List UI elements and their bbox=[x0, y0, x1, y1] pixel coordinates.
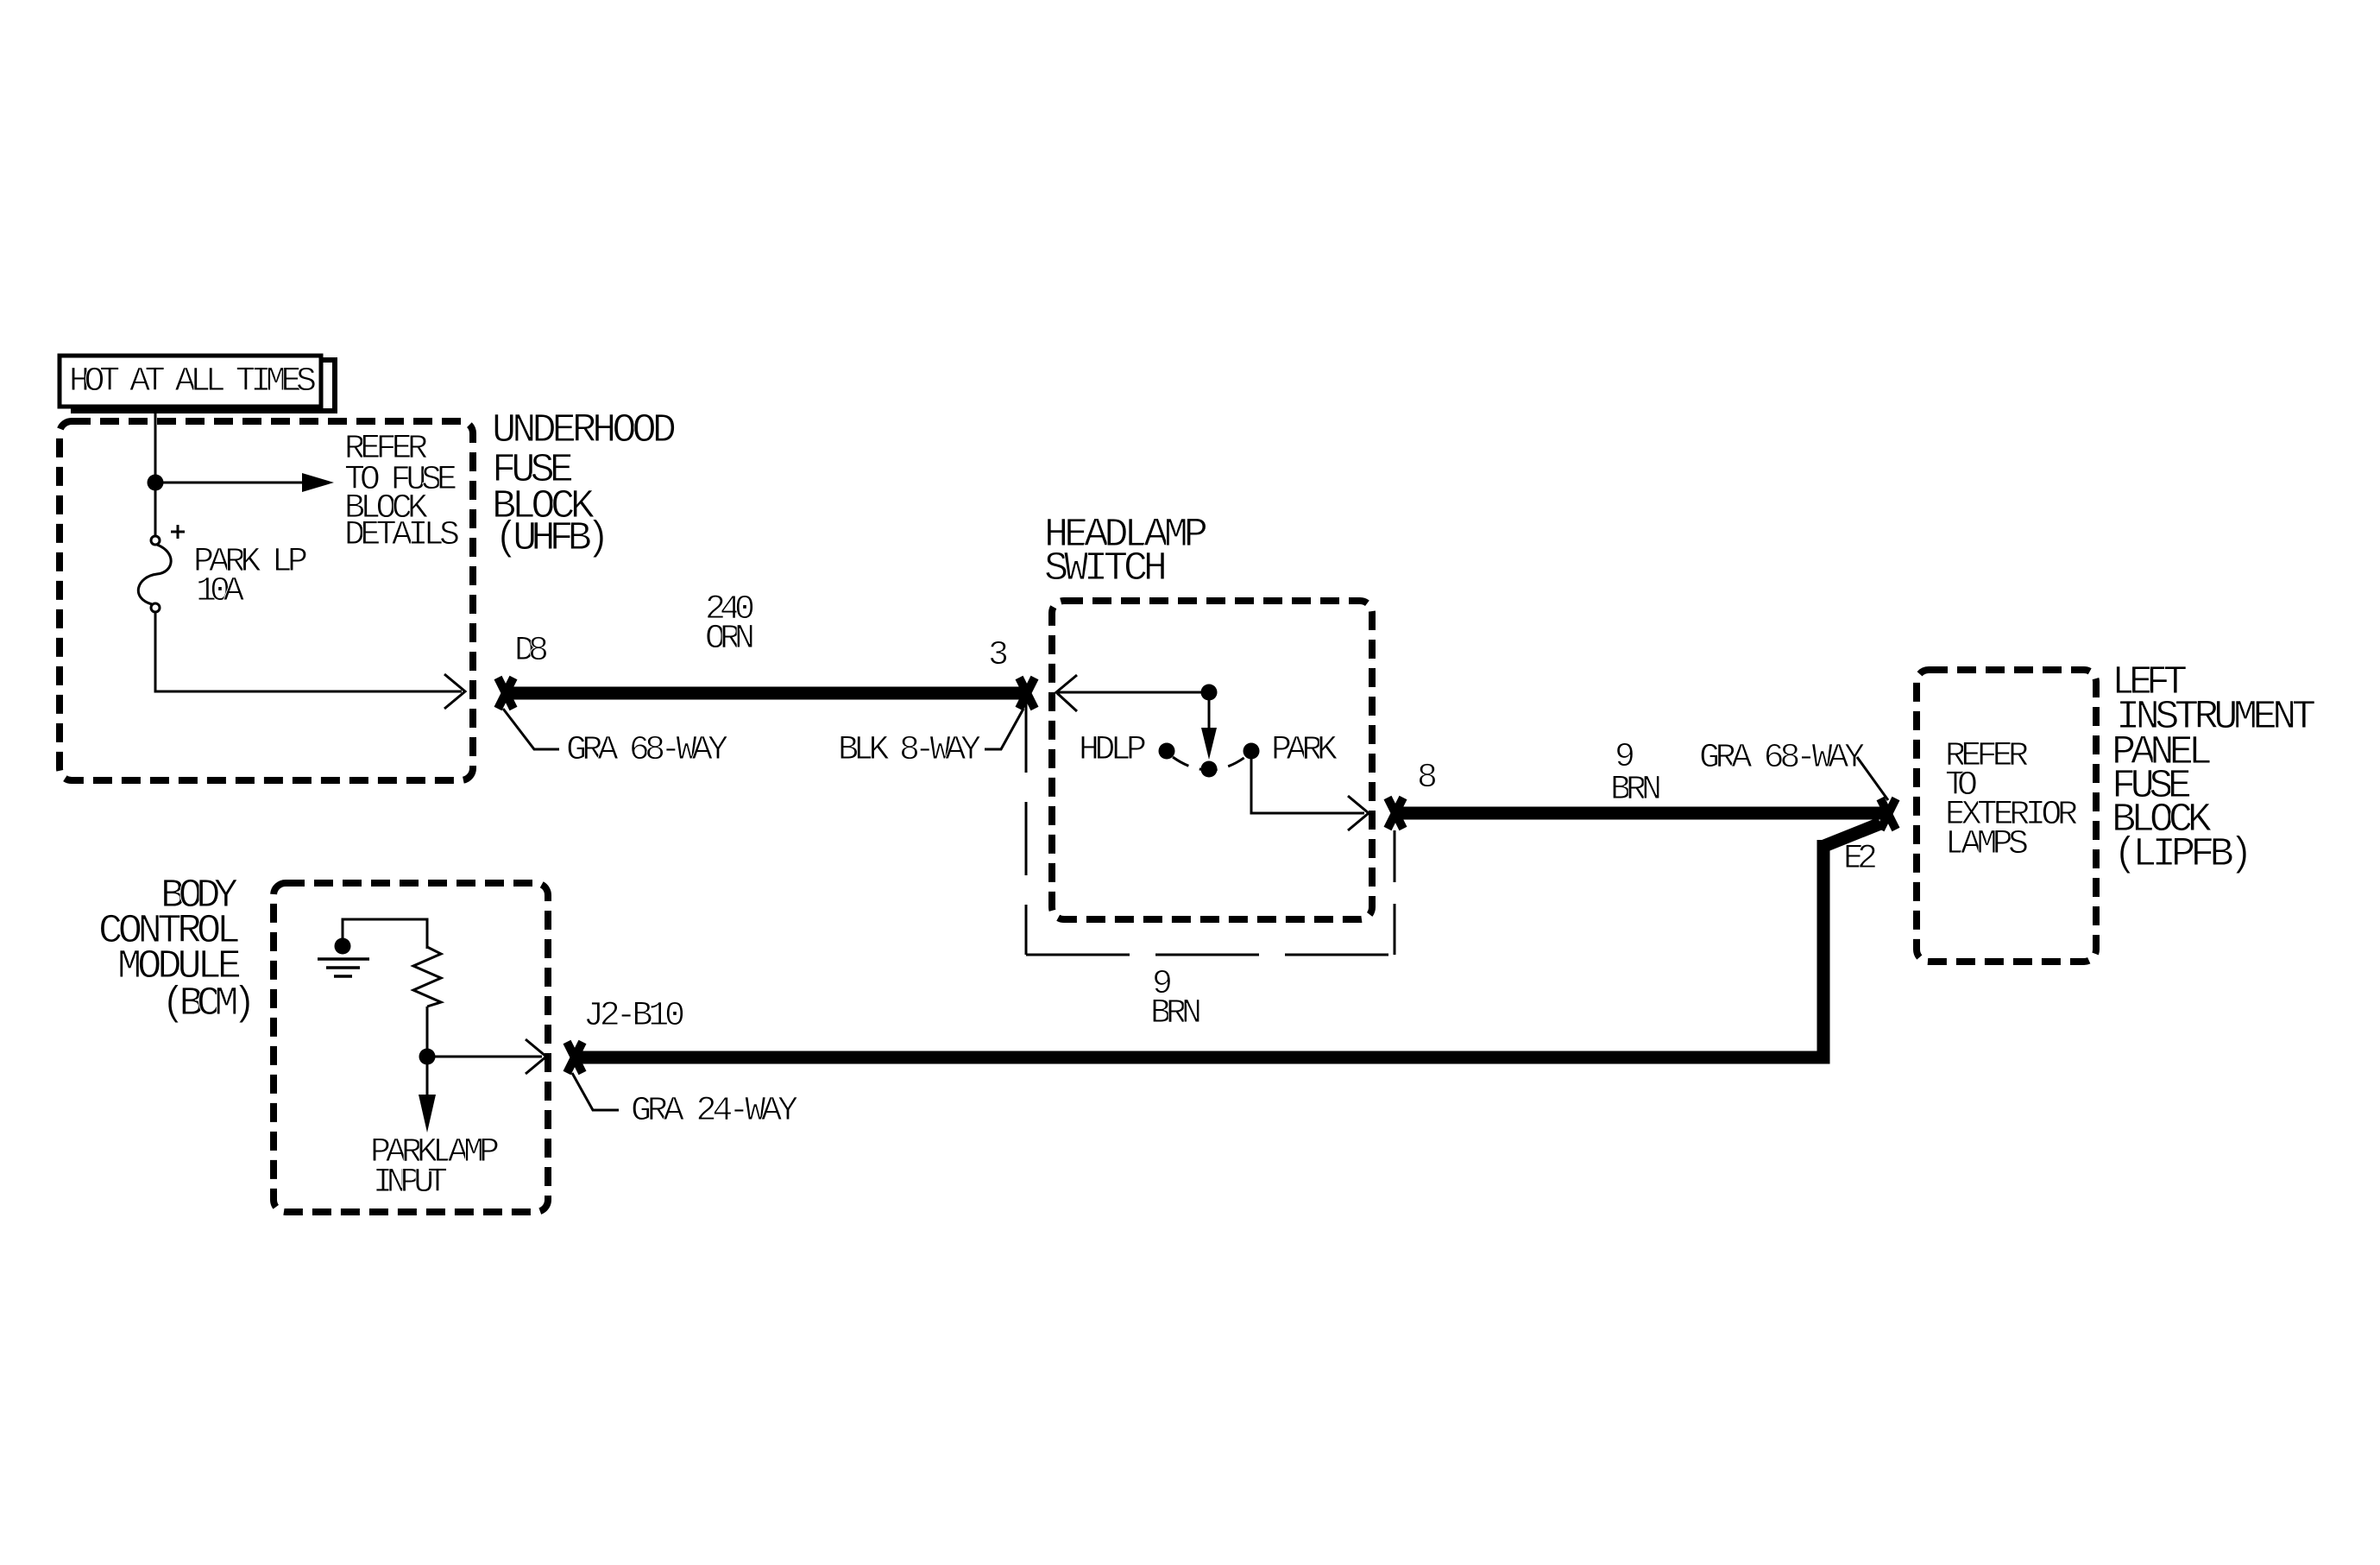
connector X at J2-B10 bbox=[567, 1042, 582, 1073]
contact PARK dot bbox=[1244, 743, 1260, 760]
svg-text:(UHFB): (UHFB) bbox=[494, 516, 610, 562]
svg-text:LAMPS: LAMPS bbox=[1945, 825, 2029, 864]
leader GRA 68-WAY left bbox=[503, 709, 559, 749]
node HOT AT ALL TIMES box shadow bbox=[73, 360, 335, 411]
svg-text:D8: D8 bbox=[514, 632, 549, 671]
wire 9 BRN lower thick bus bbox=[1824, 824, 1880, 846]
wire junction to fuse bbox=[154, 490, 157, 537]
switch actuator arrowhead bbox=[1201, 728, 1217, 760]
wire from HOT box into UHFB bbox=[154, 407, 157, 476]
svg-text:10A: 10A bbox=[196, 572, 244, 611]
connector X at pin 8 bbox=[1388, 798, 1403, 829]
svg-text:HOT AT ALL TIMES: HOT AT ALL TIMES bbox=[69, 363, 317, 401]
resistor in BCM bbox=[413, 947, 441, 1007]
svg-text:GRA 68-WAY: GRA 68-WAY bbox=[1699, 739, 1865, 778]
svg-text:SWITCH: SWITCH bbox=[1044, 546, 1168, 592]
wire PARK contact to pin 8 bbox=[1251, 758, 1364, 813]
wire ground to resistor bbox=[343, 919, 427, 949]
svg-text:BLK 8-WAY: BLK 8-WAY bbox=[838, 731, 981, 770]
svg-text:E2: E2 bbox=[1843, 840, 1878, 879]
connector X at E2 bbox=[1880, 798, 1896, 830]
svg-text:J2-B10: J2-B10 bbox=[583, 997, 685, 1036]
svg-text:3: 3 bbox=[988, 636, 1009, 675]
wire resistor to junction bbox=[426, 1007, 429, 1050]
leader GRA 24-WAY bbox=[572, 1073, 619, 1110]
svg-text:GRA 24-WAY: GRA 24-WAY bbox=[631, 1092, 798, 1131]
wire junction to parklamp input arrow bbox=[426, 1064, 429, 1096]
junction dot BCM bbox=[419, 1049, 436, 1065]
wire arrow to fuse block details bbox=[155, 482, 302, 484]
svg-text:INPUT: INPUT bbox=[373, 1164, 448, 1202]
ground dot bbox=[335, 938, 351, 955]
wire junction to pin J2-B10 bbox=[427, 1056, 542, 1058]
switch actuator line bbox=[1208, 692, 1211, 729]
headlamp switch dashed box bbox=[1052, 601, 1372, 919]
body control module BCM dashed box bbox=[274, 883, 548, 1212]
switch wiper arc bbox=[1173, 757, 1245, 770]
underhood fuse block UHFB dashed box bbox=[60, 421, 473, 780]
wire 9 BRN upper thick bus bbox=[1395, 807, 1884, 820]
leader GRA 68-WAY to E2 bbox=[1857, 757, 1888, 800]
switch common dot bbox=[1201, 685, 1218, 701]
svg-text:PARK: PARK bbox=[1271, 731, 1338, 770]
wire 240 ORN thick bus bbox=[506, 687, 1027, 700]
fuse PARK LP 10A symbol bbox=[151, 536, 160, 545]
switch assembly phantom outline bottom bbox=[1026, 954, 1395, 956]
arrow at UHFB edge bbox=[444, 674, 465, 709]
contact HDLP dot bbox=[1159, 743, 1175, 760]
switch assembly phantom outline left bbox=[1025, 699, 1028, 955]
ground symbol bbox=[318, 957, 369, 961]
svg-text:GRA 68-WAY: GRA 68-WAY bbox=[566, 731, 728, 770]
fuse PARK LP 10A plus mark bbox=[171, 531, 185, 533]
svg-text:ORN: ORN bbox=[705, 620, 755, 659]
switch assembly phantom outline right bbox=[1394, 830, 1396, 955]
wire fuse to pin D8 bbox=[155, 612, 462, 691]
connector X at pin 3 bbox=[1019, 678, 1035, 709]
svg-text:BRN: BRN bbox=[1610, 771, 1662, 810]
svg-text:8: 8 bbox=[1417, 759, 1438, 798]
leader BLK 8-WAY bbox=[985, 709, 1023, 749]
node HOT AT ALL TIMES box bbox=[60, 356, 321, 407]
svg-text:(LIPFB): (LIPFB) bbox=[2113, 832, 2253, 878]
left IP fuse block LIPFB dashed box bbox=[1917, 670, 2096, 962]
svg-text:DETAILS: DETAILS bbox=[344, 516, 460, 555]
junction dot bbox=[148, 475, 164, 491]
arrow into pin 3 bbox=[1056, 691, 1209, 694]
svg-text:HDLP: HDLP bbox=[1079, 731, 1147, 770]
switch moving contact dot bbox=[1201, 761, 1218, 778]
svg-text:(BCM): (BCM) bbox=[161, 981, 256, 1027]
svg-text:BRN: BRN bbox=[1150, 994, 1202, 1033]
connector X at D8 bbox=[498, 678, 513, 709]
